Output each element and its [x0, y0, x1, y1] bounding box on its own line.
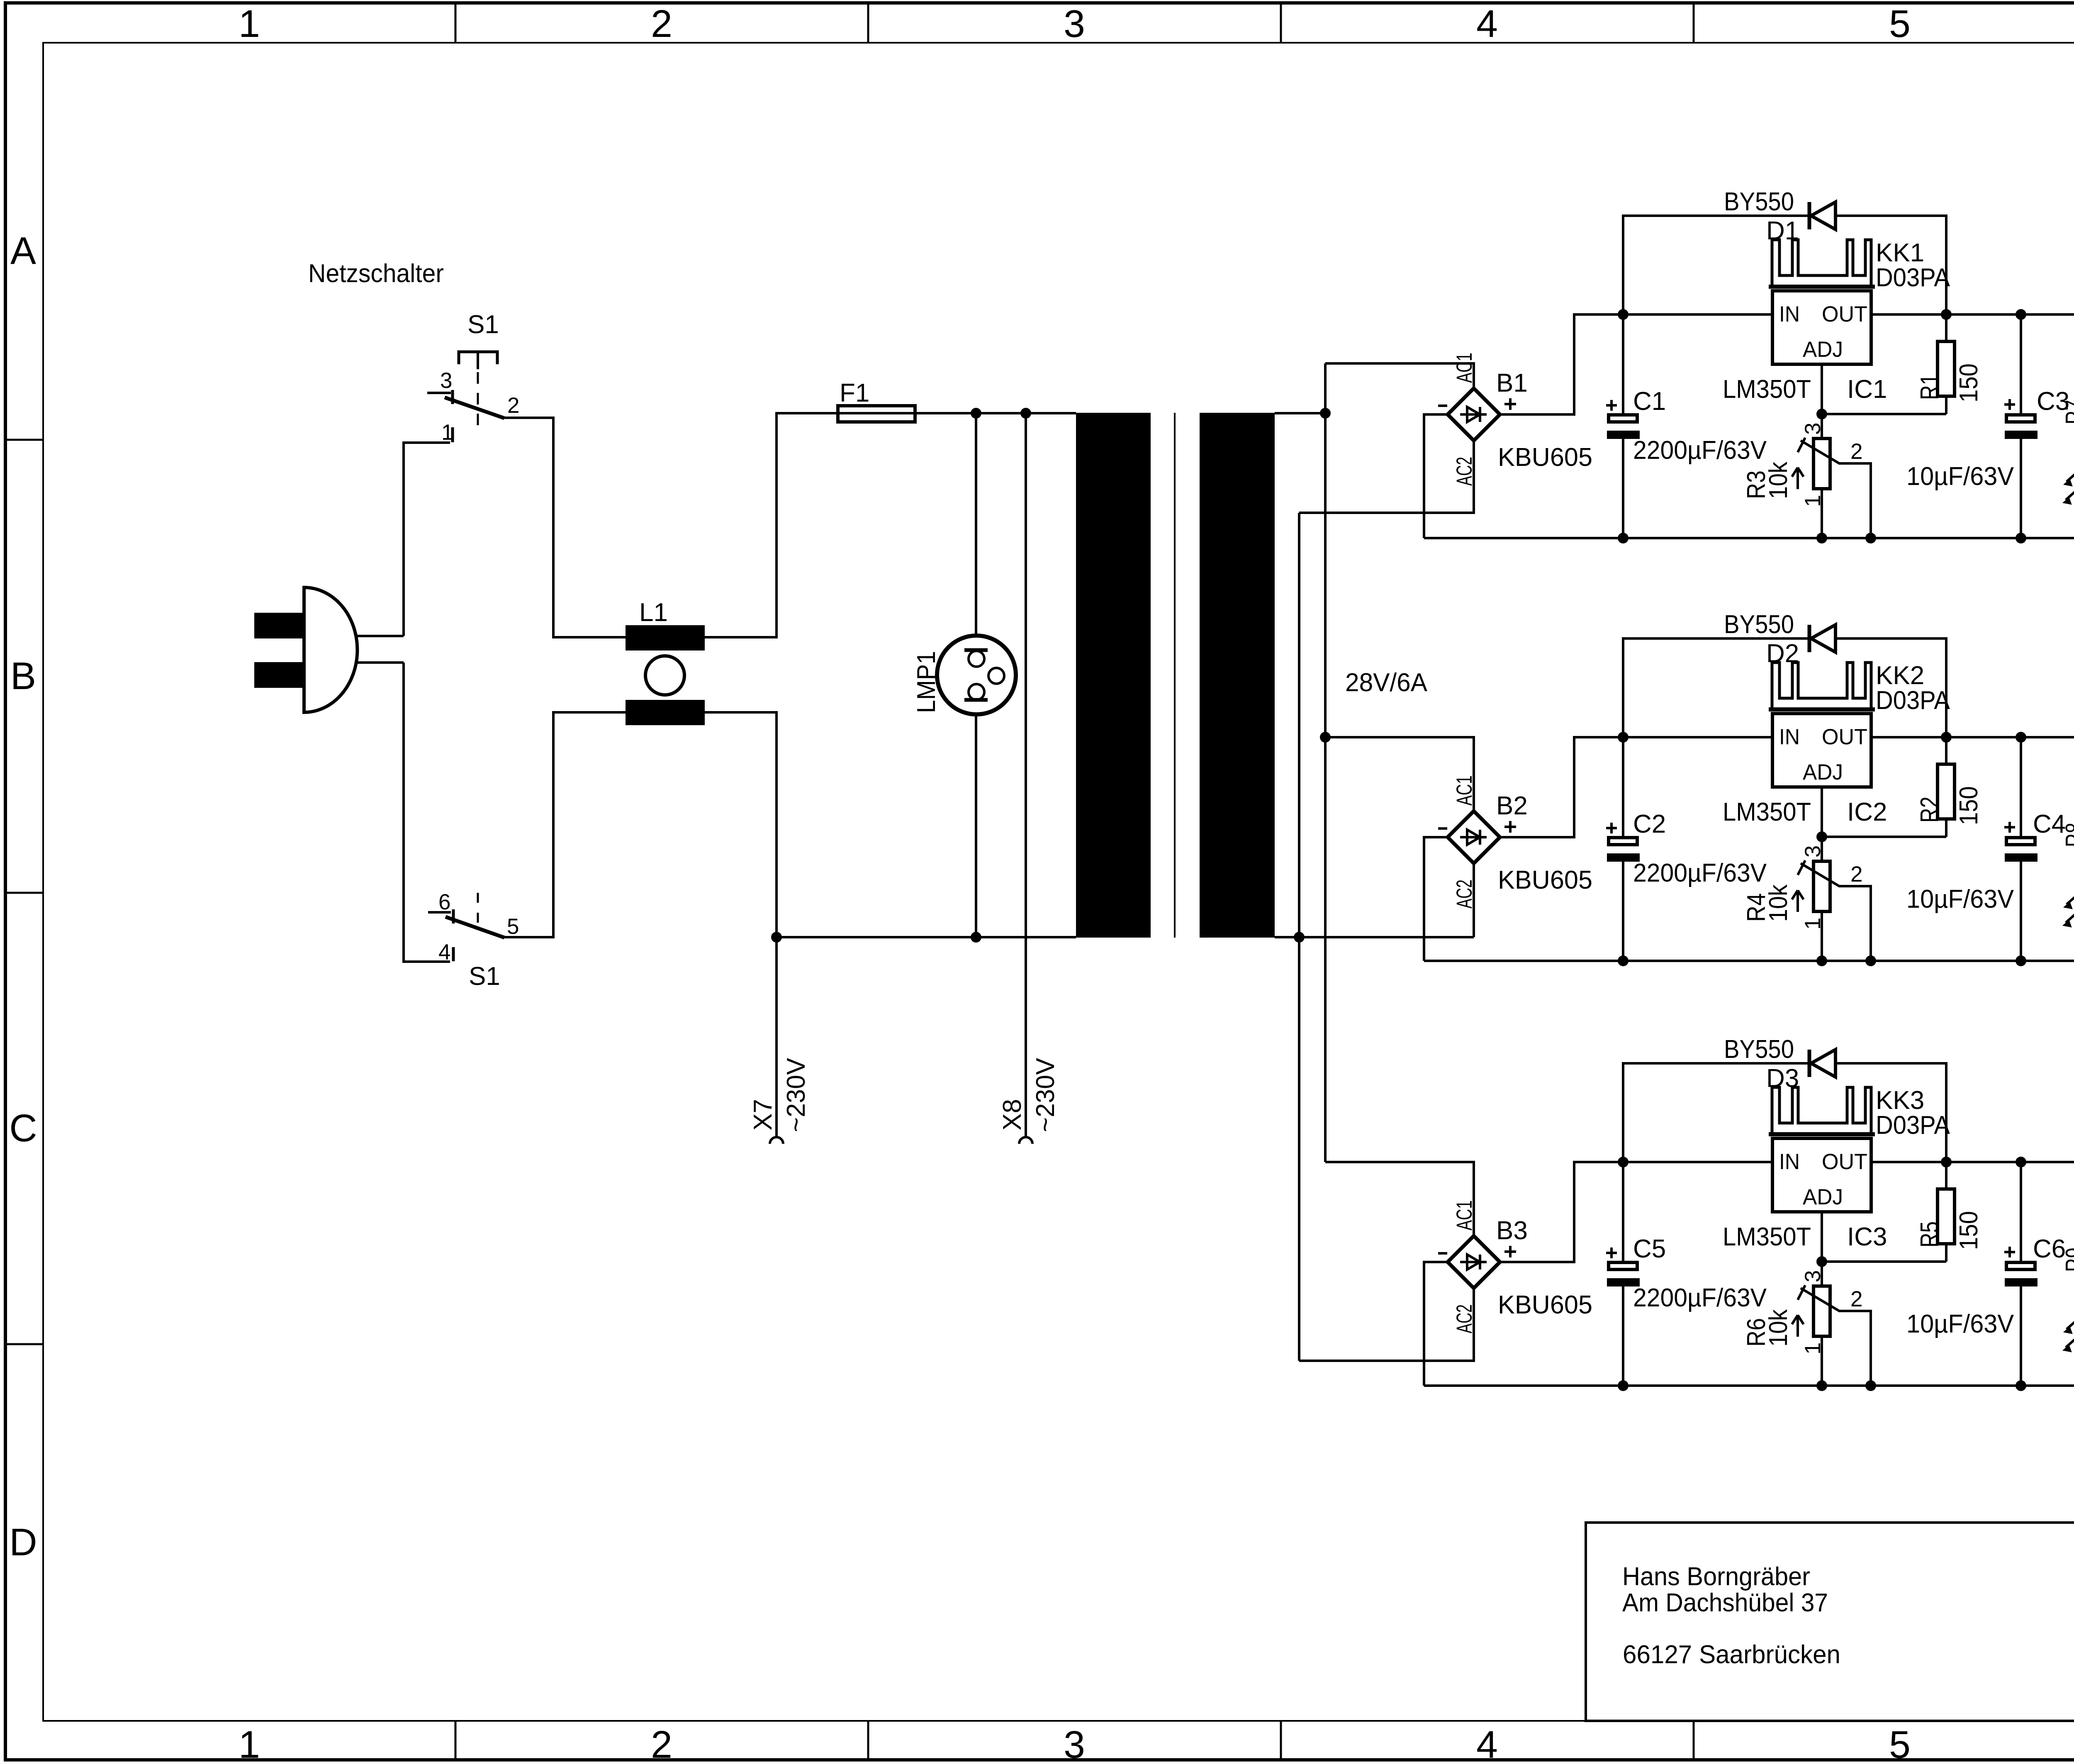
capacitor C3 — [2005, 314, 2037, 538]
junction dot R5 top — [1941, 1157, 1952, 1167]
svg-text:66127 Saarbrücken: 66127 Saarbrücken — [1623, 1640, 1840, 1669]
wire AC1 bus — [1324, 363, 1327, 1162]
junction dot C5 bottom — [1618, 1380, 1629, 1391]
wire R1 bottom to ADJ — [1822, 413, 1946, 415]
capacitor C1 — [1607, 314, 1640, 538]
junction dot R4 wiper bottom — [1865, 955, 1876, 966]
svg-text:1: 1 — [441, 420, 453, 445]
junction dot R4 bottom — [1816, 955, 1827, 966]
potentiometer R4 wiper — [1798, 860, 1871, 961]
wire transformer secondary bottom rail — [1275, 936, 1474, 938]
junction dot LMP1 top — [971, 408, 981, 419]
svg-text:IC2: IC2 — [1847, 798, 1887, 826]
wire B1 minus to GND rail — [1424, 414, 1448, 538]
regulator IC3 LM350T — [1772, 1138, 1871, 1212]
svg-text:150: 150 — [1955, 786, 1983, 825]
resistor R2 — [1938, 737, 1955, 837]
wire B2 AC1 branch — [1325, 737, 1474, 811]
wire D1 loop right riser — [1835, 216, 1946, 314]
junction dot C4 bottom — [2016, 955, 2026, 966]
svg-text:AC1: AC1 — [1452, 353, 1477, 383]
wire B1 AC2 to bus — [1299, 441, 1474, 513]
svg-text:10k: 10k — [1764, 884, 1793, 922]
svg-text:AC2: AC2 — [1452, 1304, 1477, 1333]
svg-text:10µF/63V: 10µF/63V — [1906, 462, 2014, 491]
label B1 plus sign — [1504, 403, 1516, 405]
svg-text:X7: X7 — [749, 1099, 777, 1131]
wire D3 loop right riser — [1835, 1063, 1946, 1162]
label B3 plus sign — [1504, 1250, 1516, 1253]
svg-text:AC2: AC2 — [1452, 880, 1477, 909]
wire S1 pin2 to L1 top — [504, 418, 626, 637]
heatsink KK3 — [1769, 1087, 1875, 1135]
svg-text:C5: C5 — [1633, 1235, 1666, 1263]
wire OUT rail channel 3 — [1871, 1161, 2074, 1163]
bridge rectifier B1 — [1448, 388, 1500, 441]
svg-text:B1: B1 — [1496, 369, 1528, 397]
junction dot ADJ — [1816, 1256, 1827, 1267]
svg-text:28V/6A: 28V/6A — [1345, 668, 1428, 697]
wire plug upper to node — [356, 635, 404, 637]
svg-text:OUT: OUT — [1822, 725, 1867, 749]
svg-text:1: 1 — [1801, 1342, 1825, 1355]
lamp LMP1 — [937, 413, 1016, 937]
LED LED3 emission arrows — [2063, 1320, 2074, 1352]
junction dot R6 wiper bottom — [1865, 1380, 1876, 1391]
svg-text:BY550: BY550 — [1724, 1035, 1794, 1064]
wire OUT rail channel 1 — [1871, 313, 2074, 316]
junction dot C2 bottom — [1618, 955, 1629, 966]
potentiometer R3 — [1814, 439, 1830, 538]
border column numbers bottom — [239, 1723, 2074, 1764]
svg-text:4: 4 — [438, 940, 450, 965]
wire B3 plus riser to IN rail — [1500, 1162, 1772, 1262]
wire GND rail channel 2 — [1424, 960, 2074, 962]
junction dot R3 bottom — [1816, 533, 1827, 543]
switch S1 pole A pin 1 contact — [451, 427, 454, 442]
svg-text:4: 4 — [1476, 1723, 1498, 1764]
junction dot C3 bottom — [2016, 533, 2026, 543]
label B3 minus sign — [1438, 1252, 1447, 1255]
wire GND rail channel 1 — [1424, 537, 2074, 539]
svg-text:10µF/63V: 10µF/63V — [1906, 1310, 2014, 1338]
svg-text:IN: IN — [1779, 725, 1800, 749]
svg-text:KK1: KK1 — [1876, 239, 1924, 267]
connector X8 pin — [1019, 413, 1032, 1144]
wire AC2 bus — [1298, 513, 1300, 1361]
svg-text:LM350T: LM350T — [1723, 798, 1811, 826]
svg-text:KBU605: KBU605 — [1498, 866, 1592, 894]
svg-text:L1: L1 — [639, 598, 668, 627]
junction dot AC1 bus B2 branch — [1320, 732, 1331, 743]
heatsink KK1 — [1769, 240, 1875, 287]
wire B3 AC1 branch — [1325, 1162, 1474, 1236]
svg-text:KBU605: KBU605 — [1498, 1291, 1592, 1319]
svg-text:~230V: ~230V — [1031, 1057, 1060, 1132]
svg-text:3: 3 — [1801, 845, 1825, 858]
border column dividers bottom — [455, 1721, 2074, 1761]
title block address — [1622, 1562, 1840, 1669]
svg-text:D03PA: D03PA — [1876, 1111, 1950, 1140]
svg-text:Netzschalter: Netzschalter — [308, 259, 444, 288]
svg-text:2200µF/63V: 2200µF/63V — [1633, 859, 1767, 887]
svg-text:3: 3 — [1801, 423, 1825, 435]
svg-text:B2: B2 — [1496, 792, 1528, 820]
svg-text:2: 2 — [651, 2, 672, 45]
label B2 minus sign — [1438, 827, 1447, 830]
svg-text:KK3: KK3 — [1876, 1086, 1924, 1115]
switch S1 pole A pin 3 contact — [427, 390, 453, 404]
wire B2 plus riser to IN rail — [1500, 737, 1772, 837]
junction dot C2 top — [1618, 732, 1629, 743]
choke L1 winding top — [626, 625, 705, 651]
svg-text:LM350T: LM350T — [1723, 375, 1811, 404]
svg-text:LMP1: LMP1 — [912, 651, 941, 713]
svg-text:2: 2 — [1850, 862, 1862, 887]
junction dot C6 bottom — [2016, 1380, 2026, 1391]
wire L1 top right to fuse rail — [705, 413, 838, 637]
svg-text:2: 2 — [1850, 439, 1862, 464]
border row dividers left — [5, 440, 43, 1344]
svg-text:S1: S1 — [467, 310, 499, 339]
junction dot ADJ — [1816, 409, 1827, 419]
svg-text:AC2: AC2 — [1452, 457, 1477, 486]
junction dot R6 bottom — [1816, 1380, 1827, 1391]
label C1 plus sign — [1606, 404, 1617, 407]
svg-text:150: 150 — [1955, 363, 1983, 402]
switch S1 pole B blade — [445, 917, 504, 938]
wire D2 loop left riser — [1623, 638, 1809, 737]
diode D2 — [1809, 625, 1835, 652]
svg-text:R2: R2 — [1916, 797, 1944, 823]
svg-text:IC3: IC3 — [1847, 1223, 1887, 1251]
svg-text:4: 4 — [1476, 2, 1498, 45]
svg-text:1: 1 — [239, 2, 260, 45]
junction dot R2 top — [1941, 732, 1952, 743]
wire B3 AC2 branch — [1299, 1288, 1474, 1361]
junction dot C1 top — [1618, 309, 1629, 320]
potentiometer R6 adjust arrow — [1792, 1315, 1804, 1337]
svg-text:OUT: OUT — [1822, 1150, 1867, 1174]
resistor R5 — [1938, 1162, 1955, 1262]
svg-text:6: 6 — [438, 890, 450, 914]
wire OUT rail channel 2 — [1871, 736, 2074, 738]
label C3 plus sign — [2004, 403, 2015, 406]
wire plug lower to node — [356, 661, 404, 664]
regulator IC1 LM350T — [1772, 291, 1871, 364]
transformer TR1 secondary winding bar — [1200, 413, 1275, 938]
svg-text:S1: S1 — [469, 962, 500, 991]
mains plug P1 — [254, 587, 357, 712]
wire fuse to transformer primary top — [915, 412, 1076, 414]
svg-text:3: 3 — [440, 368, 452, 393]
svg-text:R8: R8 — [2061, 823, 2074, 847]
junction dot X7 — [771, 932, 782, 943]
junction dot LMP1 bottom — [971, 932, 981, 943]
svg-text:C: C — [9, 1106, 37, 1150]
svg-text:2: 2 — [1850, 1287, 1862, 1311]
potentiometer R3 wiper — [1798, 438, 1871, 538]
potentiometer R4 — [1814, 861, 1830, 961]
title block frame — [1586, 1523, 2074, 1721]
heatsink KK2 — [1769, 663, 1875, 710]
label C2 plus sign — [1606, 827, 1617, 829]
fuse F1 — [838, 406, 915, 422]
wire ADJ pin — [1821, 364, 1823, 439]
svg-text:C2: C2 — [1633, 810, 1666, 838]
border column numbers top — [239, 2, 2074, 45]
svg-text:LM350T: LM350T — [1723, 1223, 1811, 1251]
diode D1 — [1809, 202, 1835, 229]
wire B1 AC1 to bus — [1325, 363, 1474, 388]
svg-text:1: 1 — [1801, 918, 1825, 930]
wire L1 bottom right riser down — [704, 712, 777, 937]
capacitor C6 — [2005, 1162, 2037, 1386]
svg-text:IN: IN — [1779, 1150, 1800, 1174]
svg-text:D03PA: D03PA — [1876, 263, 1950, 292]
junction dot X8 top — [1020, 408, 1031, 419]
svg-text:B3: B3 — [1496, 1216, 1528, 1245]
svg-text:X8: X8 — [998, 1099, 1027, 1131]
label B2 plus sign — [1504, 826, 1516, 828]
svg-text:ADJ: ADJ — [1803, 337, 1843, 362]
wire bottom rail primary — [777, 936, 1076, 938]
wire D1 loop left riser — [1623, 216, 1809, 314]
junction dot R1 top — [1941, 309, 1952, 320]
svg-text:~230V: ~230V — [782, 1057, 811, 1132]
connector X7 pin — [770, 937, 783, 1144]
svg-text:ADJ: ADJ — [1803, 1185, 1843, 1209]
svg-text:ADJ: ADJ — [1803, 760, 1843, 785]
svg-text:F1: F1 — [840, 379, 869, 407]
potentiometer R6 wiper — [1798, 1285, 1871, 1386]
svg-text:3: 3 — [1064, 2, 1085, 45]
potentiometer R6 — [1814, 1286, 1830, 1386]
label C4 plus sign — [2004, 826, 2015, 828]
junction dot C4 top — [2016, 732, 2026, 743]
svg-text:150: 150 — [1955, 1211, 1983, 1250]
svg-text:D03PA: D03PA — [1876, 686, 1950, 715]
junction dot C3 top — [2016, 309, 2026, 320]
transformer TR1 core — [1174, 413, 1176, 938]
junction dot AC1 bus top rail — [1320, 408, 1331, 419]
svg-text:5: 5 — [1889, 2, 1911, 45]
svg-text:Hans Borngräber: Hans Borngräber — [1622, 1562, 1810, 1591]
wire GND rail channel 3 — [1424, 1384, 2074, 1387]
junction dot C6 top — [2016, 1157, 2026, 1167]
svg-text:AC1: AC1 — [1452, 1200, 1477, 1230]
wire plug lower riser to S1 pin4 — [404, 663, 450, 962]
LED LED1 emission arrows — [2063, 472, 2074, 504]
junction dot AC2 bus on bottom rail — [1294, 932, 1305, 943]
svg-text:10k: 10k — [1764, 461, 1793, 499]
wire D2 loop right riser — [1835, 638, 1946, 737]
switch S1 pole B pin 6 contact — [428, 909, 453, 923]
switch S1 pole B actuator stem dashed — [477, 893, 479, 931]
svg-text:BY550: BY550 — [1724, 188, 1794, 216]
switch S1 pole A blade — [445, 397, 504, 418]
svg-text:3: 3 — [1064, 1723, 1085, 1764]
bridge rectifier B2 — [1448, 811, 1500, 863]
switch S1 pole A actuator bracket — [459, 352, 497, 364]
svg-text:10k: 10k — [1764, 1309, 1793, 1347]
svg-text:R7: R7 — [2061, 400, 2074, 424]
LED LED2 emission arrows — [2063, 895, 2074, 927]
svg-text:10µF/63V: 10µF/63V — [1906, 885, 2014, 914]
border column dividers top — [455, 3, 2074, 43]
regulator IC2 LM350T — [1772, 714, 1871, 787]
label B1 minus sign — [1438, 404, 1447, 407]
transformer TR1 primary winding bar — [1076, 413, 1151, 938]
wire R2 bottom to ADJ — [1822, 836, 1946, 838]
choke L1 winding bottom — [626, 700, 705, 725]
svg-text:BY550: BY550 — [1724, 610, 1794, 639]
switch S1 pole A actuator stem — [477, 353, 479, 434]
wire B2 minus to GND rail — [1424, 837, 1448, 961]
svg-text:3: 3 — [1801, 1270, 1825, 1282]
svg-text:R5: R5 — [1916, 1221, 1944, 1247]
svg-text:D: D — [9, 1520, 37, 1564]
svg-text:5: 5 — [507, 914, 519, 939]
svg-text:5: 5 — [1889, 1723, 1911, 1764]
svg-text:B: B — [10, 654, 36, 697]
label C6 plus sign — [2004, 1251, 2015, 1253]
border row letters left — [9, 229, 37, 1564]
svg-text:AC1: AC1 — [1452, 775, 1477, 806]
svg-text:Am Dachshübel 37: Am Dachshübel 37 — [1622, 1589, 1828, 1617]
resistor R1 — [1938, 314, 1955, 414]
svg-text:IN: IN — [1779, 302, 1800, 326]
label C5 plus sign — [1606, 1252, 1617, 1254]
svg-text:2200µF/63V: 2200µF/63V — [1633, 436, 1767, 465]
wire transformer secondary top to AC1 bus — [1275, 412, 1325, 414]
potentiometer R3 adjust arrow — [1792, 468, 1804, 489]
junction dot R3 wiper bottom — [1865, 533, 1876, 543]
wire B1 plus riser to IN rail — [1500, 314, 1772, 414]
svg-text:2: 2 — [651, 1723, 672, 1764]
wire ADJ pin — [1821, 1212, 1823, 1286]
wire B2 AC2 to bottom rail — [1473, 863, 1475, 937]
capacitor C5 — [1607, 1162, 1640, 1386]
wire D3 loop left riser — [1623, 1063, 1809, 1162]
svg-text:2: 2 — [507, 393, 519, 418]
svg-text:KK2: KK2 — [1876, 661, 1924, 690]
svg-text:R1: R1 — [1916, 374, 1944, 400]
svg-text:OUT: OUT — [1822, 302, 1867, 326]
svg-text:KBU605: KBU605 — [1498, 443, 1592, 472]
junction dot C1 bottom — [1618, 533, 1629, 543]
svg-text:A: A — [10, 229, 36, 272]
wire S1 pin5 to L1 bottom — [504, 712, 626, 937]
potentiometer R4 adjust arrow — [1792, 890, 1804, 912]
wire plug upper riser to S1 pin1 — [404, 443, 450, 636]
diode D3 — [1809, 1050, 1835, 1077]
svg-text:IC1: IC1 — [1847, 375, 1887, 404]
svg-text:1: 1 — [239, 1723, 260, 1764]
svg-text:1: 1 — [1801, 495, 1825, 507]
bridge rectifier B3 — [1448, 1236, 1500, 1288]
svg-text:C1: C1 — [1633, 387, 1666, 416]
wire ADJ pin — [1821, 787, 1823, 861]
wire R5 bottom to ADJ — [1822, 1260, 1946, 1263]
choke L1 core circle — [645, 656, 684, 695]
switch S1 pole B pin 4 contact — [452, 947, 455, 961]
capacitor C4 — [2005, 737, 2037, 961]
capacitor C2 — [1607, 737, 1640, 961]
junction dot C5 top — [1618, 1157, 1629, 1167]
junction dot ADJ — [1816, 831, 1827, 842]
svg-text:R9: R9 — [2061, 1247, 2074, 1272]
wire B3 minus to GND rail — [1424, 1262, 1448, 1386]
svg-text:2200µF/63V: 2200µF/63V — [1633, 1284, 1767, 1312]
